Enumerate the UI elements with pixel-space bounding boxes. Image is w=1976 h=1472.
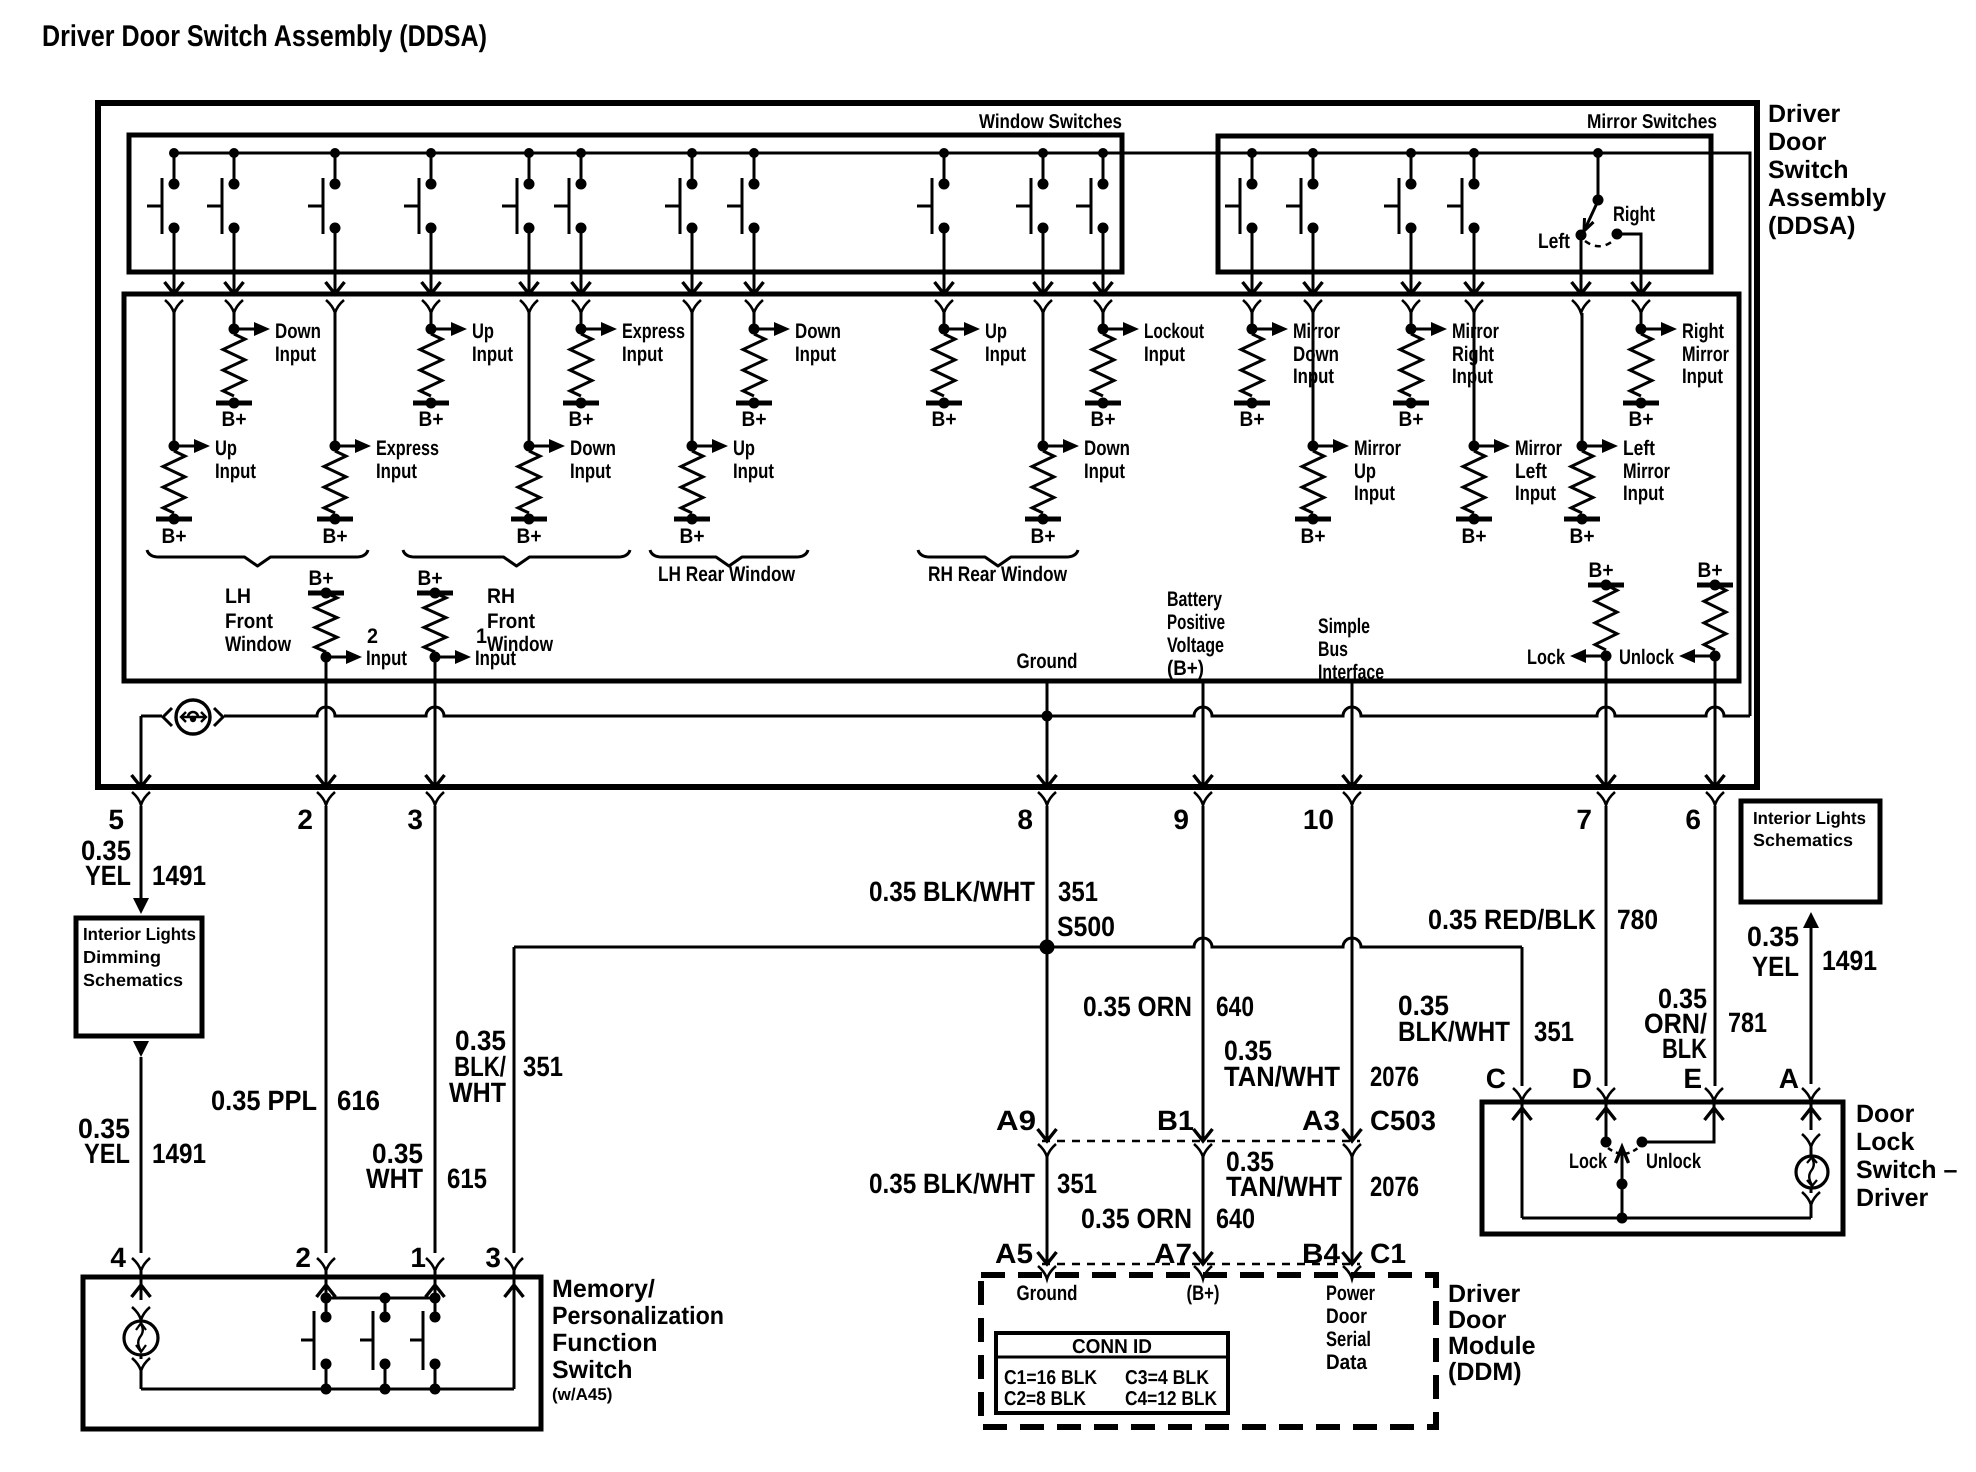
svg-text:B+: B+ — [1240, 408, 1265, 431]
wire: window down RH front switch output into DDSA logic — [520, 228, 539, 313]
svg-text:1: 1 — [410, 1242, 426, 1273]
label: E — [1683, 1063, 1702, 1094]
svg-text:A3: A3 — [1302, 1105, 1340, 1136]
label: pin 5 — [108, 804, 124, 835]
memory switch pin 2 connector — [317, 1258, 335, 1271]
label: Down Input (LH rear) — [795, 320, 841, 366]
wire: pin 8 ground BLK/WHT 351 — [1038, 806, 1057, 1157]
svg-text:A9: A9 — [996, 1105, 1036, 1136]
circuit breaker: self-resetting (circle symbol) — [141, 700, 227, 734]
node: bus junction at x=335 — [330, 148, 340, 158]
svg-text:BLK/WHT: BLK/WHT — [1398, 1016, 1510, 1047]
label: Interior Lights Dimming Schematics — [83, 924, 196, 990]
connector C503 dashed line (upper) — [1042, 1140, 1360, 1142]
svg-text:C4=12 BLK: C4=12 BLK — [1125, 1388, 1217, 1410]
label: Driver Door Switch Assembly (DDSA) right side — [1768, 100, 1886, 240]
svg-text:Schematics: Schematics — [83, 970, 183, 990]
label: 615 — [447, 1163, 487, 1194]
resistor: Up Input (RH rear) pull-up with input tap — [926, 313, 980, 409]
wire: internal feed from bus to breaker (with hops) — [225, 707, 1750, 716]
label: 2076 (A3-B4) — [1370, 1171, 1419, 1202]
svg-text:A: A — [1779, 1063, 1799, 1094]
label: C1 — [1370, 1238, 1406, 1269]
svg-text:Up: Up — [472, 320, 494, 343]
label: C3=4 BLK — [1125, 1367, 1209, 1389]
svg-text:C1: C1 — [1370, 1238, 1406, 1269]
resistor: Lock output pull-up — [1570, 559, 1624, 663]
label: pin 7 — [1576, 804, 1592, 835]
svg-text:Right: Right — [1613, 203, 1655, 226]
svg-text:640: 640 — [1216, 991, 1254, 1022]
pin 2 connector — [317, 792, 335, 805]
label: 351 (A9-A5) — [1057, 1168, 1097, 1199]
svg-text:Switch: Switch — [1768, 156, 1849, 184]
svg-text:Switch –: Switch – — [1856, 1156, 1958, 1184]
label: 0.35 TAN/WHT (pin 10) — [1224, 1035, 1340, 1092]
svg-text:Memory/: Memory/ — [552, 1275, 655, 1303]
title label: Driver Door Switch Assembly (DDSA) — [42, 20, 487, 53]
label: B+ under Express Input (RH front) resistor — [569, 408, 594, 431]
label: D — [1572, 1063, 1592, 1094]
resistor: Mirror Up Input pull-up with input tap — [1295, 313, 1349, 525]
svg-text:(B+): (B+) — [1187, 1282, 1220, 1305]
label: 0.35 ORN/BLK — [1644, 983, 1707, 1064]
svg-text:Down: Down — [275, 320, 321, 343]
resistor: Input 2 pull-up — [308, 567, 362, 664]
label: B+ under Right Mirror Input resistor — [1629, 408, 1654, 431]
svg-text:E: E — [1683, 1063, 1702, 1094]
Driver Door Module (DDM) dashed box — [981, 1275, 1436, 1427]
wire: B+ bus feeding all switches (top) and right-side drop — [174, 153, 1750, 716]
wire: window up LH front switch output into DDSA logic — [165, 228, 184, 313]
svg-text:0.35 ORN: 0.35 ORN — [1081, 1203, 1192, 1234]
svg-text:351: 351 — [1057, 1168, 1097, 1199]
node: bus junction at x=944 — [939, 148, 949, 158]
wire: pin 10 TAN/WHT 2076 — [1343, 806, 1362, 1157]
wire: Simple Bus column to pin 10 — [1343, 681, 1362, 787]
wire: door lock switch common bus — [1522, 1217, 1811, 1220]
label: pin 8 — [1017, 804, 1033, 835]
pin 9 connector — [1194, 792, 1212, 805]
label: 351 (pin 8) — [1058, 876, 1098, 907]
svg-text:RH: RH — [487, 585, 515, 608]
wire: S500 branch down to door lock switch pin C — [1521, 947, 1524, 1086]
resistor: Down Input (RH rear) pull-up with input tap — [1025, 313, 1079, 525]
label: RH Rear Window — [928, 563, 1068, 586]
label: 0.35 BLK/WHT (memory branch) — [449, 1025, 506, 1108]
label: B+ under Mirror Up Input resistor — [1301, 525, 1326, 548]
svg-text:Interior Lights: Interior Lights — [1753, 808, 1866, 828]
wire: Input 2 column to pin 2 — [317, 681, 336, 787]
pin A connector — [1802, 1088, 1820, 1101]
label: 2 Input — [366, 625, 407, 670]
label: 0.35 RED/BLK — [1428, 904, 1596, 935]
svg-text:B+: B+ — [1698, 559, 1723, 582]
svg-text:Input: Input — [1623, 482, 1664, 505]
label: 781 — [1728, 1007, 1767, 1038]
label: Window Switches — [979, 111, 1122, 133]
svg-text:1491: 1491 — [152, 1138, 206, 1169]
svg-text:B1: B1 — [1157, 1105, 1194, 1136]
label: B+ under Express Input (LH front) resistor — [323, 525, 348, 548]
wire: mirror right switch output into DDSA logic — [1402, 228, 1421, 313]
wire: Ground column to pin 8 — [1038, 681, 1057, 787]
switch: window up RH rear pushbutton — [917, 153, 950, 234]
switch: memory pushbutton 3 — [410, 1298, 441, 1389]
svg-text:Down: Down — [795, 320, 841, 343]
svg-text:Dimming: Dimming — [83, 947, 161, 967]
label: Mirror Left Input — [1515, 437, 1562, 505]
svg-text:Left: Left — [1538, 230, 1570, 253]
svg-text:0.35 RED/BLK: 0.35 RED/BLK — [1428, 904, 1596, 935]
wire: ground A9 to A5 segment — [1038, 1157, 1057, 1279]
wire: Input 2 down to DDSA pin — [325, 657, 328, 681]
svg-text:Personalization: Personalization — [552, 1302, 724, 1330]
label: Left Mirror Input — [1623, 437, 1670, 505]
svg-text:7: 7 — [1576, 804, 1592, 835]
Memory/Personalization Function Switch box — [83, 1277, 541, 1429]
label: C4=12 BLK — [1125, 1388, 1217, 1410]
wire: pin 6 ORN/BLK 781 to door lock E — [1714, 806, 1717, 1086]
wire: Unlock output down to DDSA pin — [1714, 656, 1717, 681]
wire: Input 1 down to DDSA pin — [434, 657, 437, 681]
svg-text:Ground: Ground — [1017, 650, 1078, 673]
pin 10 connector — [1343, 792, 1361, 805]
DDSA input-resistor box — [124, 294, 1739, 681]
svg-text:TAN/WHT: TAN/WHT — [1224, 1061, 1340, 1092]
memory switch pin 1 connector — [426, 1258, 444, 1271]
label: C — [1486, 1063, 1506, 1094]
label: pin 3 — [407, 804, 423, 835]
svg-text:0.35 ORN: 0.35 ORN — [1083, 991, 1192, 1022]
wire: memory pin 3 entry — [505, 1271, 524, 1389]
wire: dimming schematics to memory switch pin 4 — [133, 1041, 149, 1253]
window switches box — [129, 135, 1122, 272]
svg-text:1491: 1491 — [152, 860, 206, 891]
svg-text:WHT: WHT — [449, 1077, 506, 1108]
label: Down Input (LH front) — [275, 320, 321, 366]
svg-text:Mirror: Mirror — [1623, 460, 1670, 483]
svg-text:Schematics: Schematics — [1753, 830, 1853, 850]
resistor: Mirror Down Input pull-up with input tap — [1234, 313, 1288, 409]
svg-text:BLK: BLK — [1662, 1033, 1707, 1064]
label: B+ under Up Input (RH front) resistor — [419, 408, 444, 431]
switch: window lockout pushbutton — [1076, 153, 1109, 234]
label: 2076 (pin 10) — [1370, 1061, 1419, 1092]
label: 0.35 TAN/WHT (A3-B4) — [1226, 1146, 1342, 1202]
svg-text:(B+): (B+) — [1167, 657, 1204, 680]
svg-text:Lock: Lock — [1569, 1150, 1607, 1173]
pin E connector — [1705, 1088, 1723, 1101]
svg-text:Up: Up — [215, 437, 237, 460]
svg-text:6: 6 — [1685, 804, 1701, 835]
svg-text:C3=4 BLK: C3=4 BLK — [1125, 1367, 1209, 1389]
label: 1491 (pin 4 wire) — [152, 1138, 206, 1169]
wire: pin 9 ORN 640 — [1194, 806, 1213, 1157]
svg-text:Input: Input — [1682, 365, 1723, 388]
svg-text:640: 640 — [1216, 1203, 1255, 1234]
label: B+ under Up Input (LH rear) resistor — [680, 525, 705, 548]
svg-text:Input: Input — [795, 343, 836, 366]
label: Up Input (RH front) — [472, 320, 513, 366]
svg-text:B+: B+ — [162, 525, 187, 548]
svg-text:Mirror Switches: Mirror Switches — [1587, 111, 1717, 133]
resistor: Down Input (LH front) pull-up with input tap — [216, 313, 270, 409]
switch: window up LH front pushbutton — [147, 153, 180, 234]
node: bus junction at x=1411 — [1406, 148, 1416, 158]
svg-text:Ground: Ground — [1017, 1282, 1078, 1305]
switch: mirror left pushbutton — [1447, 153, 1480, 234]
label: B+ under Up Input (LH front) resistor — [162, 525, 187, 548]
svg-text:Front: Front — [225, 610, 273, 633]
node: bus junction at x=431 — [426, 148, 436, 158]
resistor: Left Mirror Input pull-up with input tap — [1564, 313, 1618, 525]
label: 0.35 ORN (pin 9) — [1083, 991, 1192, 1022]
brace: RH Rear Window group — [918, 550, 1078, 566]
label: Ground — [1017, 650, 1078, 673]
svg-text:0.35 PPL: 0.35 PPL — [211, 1085, 317, 1116]
brace: LH Front Window group — [147, 550, 368, 566]
svg-text:C: C — [1486, 1063, 1506, 1094]
svg-text:Input: Input — [215, 460, 256, 483]
switch: window up LH rear pushbutton — [665, 153, 698, 234]
label: CONN ID — [1072, 1336, 1152, 1358]
pin 6 connector — [1706, 792, 1724, 805]
svg-text:B+: B+ — [517, 525, 542, 548]
svg-text:2: 2 — [295, 1242, 311, 1273]
wire: memory pin 1 entry — [426, 1271, 445, 1317]
svg-text:C2=8 BLK: C2=8 BLK — [1004, 1388, 1086, 1410]
svg-text:Input: Input — [366, 647, 407, 670]
svg-text:Input: Input — [275, 343, 316, 366]
svg-text:B+: B+ — [742, 408, 767, 431]
label: Up Input (LH front) — [215, 437, 256, 483]
label: 0.35 YEL (pin 5 wire) — [81, 835, 131, 891]
node: bus junction at x=1598 — [1593, 148, 1603, 158]
svg-text:Positive: Positive — [1167, 611, 1225, 634]
label: Mirror Right Input — [1452, 320, 1499, 388]
label: 0.35 YEL (lamp wire) — [1747, 921, 1799, 982]
svg-text:0.35 BLK/WHT: 0.35 BLK/WHT — [869, 1168, 1035, 1199]
label: Lock — [1527, 646, 1565, 669]
label: Unlock — [1646, 1150, 1701, 1173]
wire: window express RH front switch output into DDSA logic — [572, 228, 591, 313]
svg-text:Up: Up — [1354, 460, 1376, 483]
svg-text:Input: Input — [570, 460, 611, 483]
svg-text:Lockout: Lockout — [1144, 320, 1204, 343]
svg-text:Input: Input — [472, 343, 513, 366]
label: Battery Positive Voltage (B+) — [1167, 588, 1225, 680]
label: 640 (B1-A7) — [1216, 1203, 1255, 1234]
node: splice S500 — [1040, 940, 1055, 955]
wire: window down LH rear switch output into DDSA logic — [745, 228, 764, 313]
box: Interior Lights Dimming Schematics — [76, 918, 202, 1036]
svg-text:Data: Data — [1326, 1351, 1367, 1374]
svg-text:B+: B+ — [1629, 408, 1654, 431]
svg-text:C1=16 BLK: C1=16 BLK — [1004, 1367, 1097, 1389]
label: pin 6 — [1685, 804, 1701, 835]
label: Power Door Serial Data (DDM pin B4) — [1326, 1282, 1375, 1374]
svg-text:Door: Door — [1326, 1305, 1367, 1328]
label: 0.35 BLK/WHT (A9-A5) — [869, 1168, 1035, 1199]
resistor: Express Input (LH front) pull-up with input tap — [317, 313, 371, 525]
switch: mirror up pushbutton — [1286, 153, 1319, 234]
wire: door lock A to interior lights (YEL 1491) — [1803, 912, 1819, 1084]
svg-text:Down: Down — [570, 437, 616, 460]
svg-text:Input: Input — [475, 647, 516, 670]
label: B+ under Left Mirror Input resistor — [1570, 525, 1595, 548]
svg-text:351: 351 — [523, 1051, 563, 1082]
node: bus junction at x=754 — [749, 148, 759, 158]
svg-text:(DDSA): (DDSA) — [1768, 212, 1856, 240]
wire: window lockout switch output into DDSA logic — [1094, 228, 1113, 313]
label: C2=8 BLK — [1004, 1388, 1086, 1410]
svg-text:YEL: YEL — [1752, 951, 1799, 982]
svg-text:Power: Power — [1326, 1282, 1375, 1305]
label: Door Lock Switch - Driver — [1856, 1100, 1958, 1212]
label: 616 — [337, 1085, 380, 1116]
label: Mirror Up Input — [1354, 437, 1401, 505]
svg-text:Front: Front — [487, 610, 535, 633]
wire: mirror select left output — [1572, 236, 1591, 313]
svg-text:B+: B+ — [419, 408, 444, 431]
label: B+ under Up Input (RH rear) resistor — [932, 408, 957, 431]
svg-text:B+: B+ — [309, 567, 334, 590]
wire: window up LH rear switch output into DDSA logic — [683, 228, 702, 313]
switch: window up RH front pushbutton — [404, 153, 437, 234]
wire: pin D to Lock contact — [1597, 1101, 1616, 1148]
label: 351 (memory branch) — [523, 1051, 563, 1082]
label: Mirror Switches — [1587, 111, 1717, 133]
wire: mirror down switch output into DDSA logic — [1243, 228, 1262, 313]
label: pin 10 — [1303, 804, 1334, 835]
label: B+ under Down Input (RH rear) resistor — [1031, 525, 1056, 548]
svg-text:3: 3 — [485, 1242, 501, 1273]
svg-text:3: 3 — [407, 804, 423, 835]
wire: pin C inside door lock switch — [1513, 1101, 1532, 1218]
pin C connector — [1513, 1088, 1531, 1101]
wire: window down RH rear switch output into DDSA logic — [1034, 228, 1053, 313]
svg-text:YEL: YEL — [84, 1138, 130, 1169]
label: Interior Lights Schematics — [1753, 808, 1866, 850]
svg-text:B+: B+ — [680, 525, 705, 548]
pin 7 connector — [1597, 792, 1615, 805]
svg-text:TAN/WHT: TAN/WHT — [1226, 1171, 1342, 1202]
label: memory pin 2 — [295, 1242, 311, 1273]
svg-text:RH Rear Window: RH Rear Window — [928, 563, 1068, 586]
svg-text:A5: A5 — [995, 1238, 1033, 1269]
resistor: Mirror Left Input pull-up with input tap — [1456, 313, 1510, 525]
wire: pin 7 RED/BLK 780 to door lock D — [1605, 806, 1608, 1086]
svg-text:Driver: Driver — [1768, 100, 1841, 128]
svg-text:Up: Up — [985, 320, 1007, 343]
svg-text:Window: Window — [225, 633, 292, 656]
label: 0.35 PPL — [211, 1085, 317, 1116]
svg-text:Input: Input — [733, 460, 774, 483]
wire: pin 5 YEL 1491 to dimming schematics — [133, 806, 149, 914]
wire: B+ column to pin 9 — [1194, 681, 1213, 787]
label: 0.35 BLK/WHT (door lock branch) — [1398, 990, 1510, 1047]
svg-text:Input: Input — [1515, 482, 1556, 505]
label: Up Input (RH rear) — [985, 320, 1026, 366]
svg-text:1491: 1491 — [1822, 945, 1877, 976]
svg-text:B+: B+ — [1399, 408, 1424, 431]
label: 1491 (pin 5 wire) — [152, 860, 206, 891]
svg-text:2: 2 — [367, 625, 378, 648]
label: Lock — [1569, 1150, 1607, 1173]
wire: S500 branch down to memory switch pin 3 — [513, 947, 516, 1253]
svg-text:0.35 BLK/WHT: 0.35 BLK/WHT — [869, 876, 1035, 907]
resistor: Right Mirror Input pull-up with input tap — [1623, 313, 1677, 409]
svg-text:YEL: YEL — [85, 860, 131, 891]
svg-text:Assembly: Assembly — [1768, 184, 1886, 212]
svg-text:Left: Left — [1515, 460, 1547, 483]
wire: B+ B1 to A7 segment — [1194, 1157, 1213, 1279]
resistor: Down Input (LH rear) pull-up with input tap — [736, 313, 790, 409]
node: bus junction at x=1313 — [1308, 148, 1318, 158]
label: C503 — [1370, 1105, 1436, 1136]
node: bus junction at x=1103 — [1098, 148, 1108, 158]
svg-text:A7: A7 — [1154, 1238, 1192, 1269]
svg-text:4: 4 — [110, 1242, 126, 1273]
node: bus junction at x=1043 — [1038, 148, 1048, 158]
resistor: Up Input (RH front) pull-up with input tap — [413, 313, 467, 409]
node: bus junction at x=174 — [169, 148, 179, 158]
svg-text:(w/A45): (w/A45) — [552, 1385, 612, 1404]
wire: window down LH front switch output into DDSA logic — [225, 228, 244, 313]
svg-text:(DDM): (DDM) — [1448, 1358, 1522, 1386]
switch: mirror right pushbutton — [1384, 153, 1417, 234]
node: bus junction at x=581 — [576, 148, 586, 158]
svg-text:351: 351 — [1058, 876, 1098, 907]
switch: window express RH front pushbutton — [554, 153, 587, 234]
wire: window up RH front switch output into DDSA logic — [422, 228, 441, 313]
label: pin 9 — [1173, 804, 1189, 835]
svg-text:Mirror: Mirror — [1354, 437, 1401, 460]
pin 5 connector — [132, 792, 150, 805]
memory switch pin 4 connector — [132, 1258, 150, 1271]
wire: memory pin 4 entry — [132, 1271, 151, 1300]
label: Express Input (RH front) — [622, 320, 685, 366]
wire: Lock output down to DDSA pin — [1605, 656, 1608, 681]
svg-text:1: 1 — [476, 625, 487, 648]
svg-text:Driver: Driver — [1856, 1184, 1929, 1212]
svg-text:Express: Express — [622, 320, 685, 343]
svg-text:Voltage: Voltage — [1167, 634, 1224, 657]
svg-text:Unlock: Unlock — [1646, 1150, 1701, 1173]
svg-text:Simple: Simple — [1318, 615, 1370, 638]
svg-text:8: 8 — [1017, 804, 1033, 835]
label: Lockout Input — [1144, 320, 1204, 366]
lamp: memory switch illumination — [124, 1307, 158, 1389]
wire: memory switch top bus — [321, 1293, 441, 1304]
label: B+ under Mirror Right Input resistor — [1399, 408, 1424, 431]
svg-text:Input: Input — [622, 343, 663, 366]
svg-text:Door: Door — [1768, 128, 1827, 156]
resistor: Up Input (LH front) pull-up with input tap — [156, 313, 210, 525]
switch: window express LH front pushbutton — [308, 153, 341, 234]
label: B+ under Down Input (RH front) resistor — [517, 525, 542, 548]
box: Interior Lights Schematics — [1741, 801, 1880, 902]
label: 351 (door lock branch) — [1534, 1016, 1574, 1047]
svg-text:Serial: Serial — [1326, 1328, 1371, 1351]
wire: serial A3 to B4 segment — [1343, 1157, 1362, 1279]
switch: window down LH front pushbutton — [207, 153, 240, 234]
node: bus junction at x=1474 — [1469, 148, 1479, 158]
svg-text:Down: Down — [1084, 437, 1130, 460]
svg-text:Interior Lights: Interior Lights — [83, 924, 196, 944]
svg-text:2: 2 — [297, 804, 313, 835]
